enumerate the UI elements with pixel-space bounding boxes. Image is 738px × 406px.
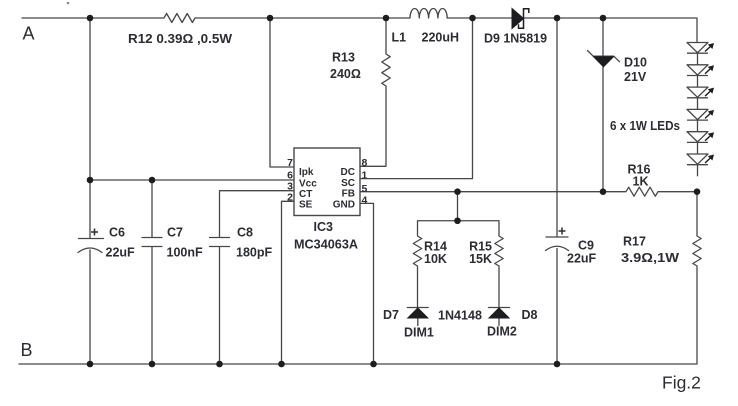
- svg-text:C6: C6: [109, 226, 125, 240]
- svg-text:R13: R13: [332, 51, 355, 65]
- svg-text:R12 0.39Ω ,0.5W: R12 0.39Ω ,0.5W: [128, 32, 232, 46]
- svg-text:D7: D7: [383, 308, 399, 322]
- svg-text:100nF: 100nF: [167, 246, 203, 260]
- svg-text:22uF: 22uF: [106, 246, 136, 260]
- svg-text:C7: C7: [167, 226, 183, 240]
- svg-text:240Ω: 240Ω: [330, 67, 361, 81]
- svg-text:DIM1: DIM1: [404, 326, 434, 340]
- svg-text:CT: CT: [299, 189, 312, 200]
- svg-text:10K: 10K: [424, 252, 447, 266]
- svg-text:22uF: 22uF: [567, 252, 597, 266]
- svg-text:5: 5: [362, 183, 368, 195]
- svg-text:R17: R17: [623, 235, 646, 249]
- svg-text:C8: C8: [237, 226, 253, 240]
- svg-text:L1: L1: [392, 31, 407, 45]
- svg-text:8: 8: [362, 157, 368, 169]
- svg-text:A: A: [23, 24, 35, 44]
- svg-text:1: 1: [362, 170, 368, 182]
- svg-text:C9: C9: [578, 239, 594, 253]
- svg-text:D8: D8: [522, 308, 538, 322]
- svg-text:2: 2: [287, 192, 293, 204]
- svg-text:1N4148: 1N4148: [438, 309, 482, 323]
- svg-text:SE: SE: [299, 200, 313, 211]
- svg-text:GND: GND: [333, 200, 355, 211]
- svg-text:4: 4: [362, 195, 368, 207]
- svg-text:Ipk: Ipk: [299, 167, 314, 178]
- svg-text:15K: 15K: [469, 252, 492, 266]
- svg-text:6 x 1W LEDs: 6 x 1W LEDs: [610, 119, 680, 133]
- svg-text:IC3: IC3: [314, 220, 334, 234]
- svg-text:7: 7: [287, 157, 293, 169]
- svg-text:DIM2: DIM2: [487, 325, 517, 339]
- svg-text:DC: DC: [341, 167, 355, 178]
- svg-text:Fig.2: Fig.2: [662, 373, 701, 393]
- svg-text:FB: FB: [342, 189, 355, 200]
- svg-text:21V: 21V: [624, 70, 647, 84]
- svg-text:SC: SC: [341, 178, 355, 189]
- svg-text:D9 1N5819: D9 1N5819: [484, 32, 547, 46]
- svg-text:MC34063A: MC34063A: [294, 238, 358, 252]
- svg-text:3.9Ω,1W: 3.9Ω,1W: [621, 251, 679, 265]
- svg-text:220uH: 220uH: [422, 31, 460, 45]
- svg-text:Vcc: Vcc: [299, 179, 317, 190]
- svg-text:D10: D10: [624, 56, 647, 70]
- svg-text:180pF: 180pF: [236, 246, 272, 260]
- svg-text:B: B: [21, 340, 33, 360]
- svg-text:1K: 1K: [633, 175, 649, 189]
